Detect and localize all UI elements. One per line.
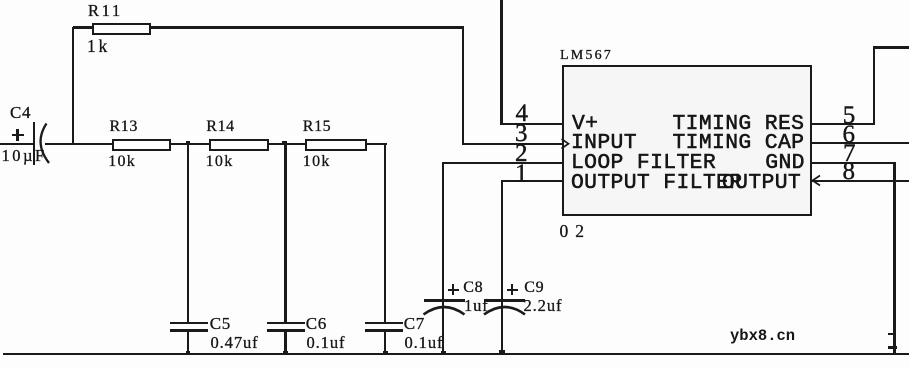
- pin number 3: [515, 121, 528, 146]
- capacitor C8: [0, 0, 560, 368]
- wire pin2 lead: [442, 162, 562, 164]
- junction node R14/R15: [282, 141, 287, 146]
- resistor R14: [0, 0, 400, 200]
- wire pin5 riser: [873, 46, 876, 125]
- junction node C9 to rail: [499, 350, 506, 356]
- wire R13 to R14: [171, 143, 209, 145]
- output arrow pin8: [808, 172, 828, 192]
- wire pin3 input: [462, 143, 562, 145]
- wire drop to C7: [384, 144, 386, 322]
- watermark ybx8.cn: [730, 329, 795, 345]
- capacitor C5: [0, 0, 300, 368]
- wire drop to C5: [187, 144, 189, 322]
- wire main row C4 to R13: [45, 143, 112, 145]
- wire pin5 lead: [812, 123, 875, 125]
- capacitor C9: [0, 0, 620, 368]
- wire V+ supply riser: [500, 0, 502, 125]
- pin number 8: [843, 159, 856, 184]
- capacitor C6: [0, 0, 400, 368]
- pin number 4: [516, 101, 529, 126]
- wire pin4 lead: [501, 123, 562, 125]
- wire C9 branch: [501, 181, 503, 354]
- wire pin1 lead: [501, 180, 562, 182]
- junction node C5 to rail: [186, 351, 191, 355]
- pin number 5: [843, 103, 856, 128]
- wire drop to C6: [284, 144, 286, 322]
- pin number 1: [515, 161, 528, 186]
- pin number 7: [843, 141, 856, 166]
- junction node C7 to rail: [383, 351, 388, 355]
- wire R11 right lead to drop: [151, 26, 464, 28]
- input arrow pin3: [558, 134, 578, 154]
- capacitor C4: [0, 0, 60, 170]
- wire R11 left vertical riser: [72, 27, 74, 145]
- pin number 2: [515, 141, 528, 166]
- wire pin7 ground drop: [893, 162, 896, 354]
- resistor R11: [0, 0, 200, 60]
- resistor R15: [0, 0, 500, 200]
- junction node R13/R14: [186, 141, 191, 146]
- ground rail: [3, 353, 909, 356]
- wire pin5 top run: [873, 46, 909, 49]
- wire pin7 lead: [812, 162, 895, 164]
- capacitor C7: [0, 0, 500, 368]
- wire C4 input lead: [0, 143, 34, 145]
- wire pin6 lead: [812, 142, 909, 144]
- wire R11 output drop: [462, 27, 464, 145]
- wire R11 left lead: [73, 26, 92, 28]
- wire R14 to R15: [268, 143, 305, 145]
- junction node C8 to rail: [441, 351, 446, 355]
- wire pin8 lead: [812, 180, 909, 182]
- resistor R13: [0, 0, 300, 200]
- wire R15 right lead: [367, 143, 387, 145]
- pin number 6: [843, 122, 856, 147]
- junction node C6 to rail: [283, 351, 288, 355]
- wire C8 branch: [442, 162, 444, 354]
